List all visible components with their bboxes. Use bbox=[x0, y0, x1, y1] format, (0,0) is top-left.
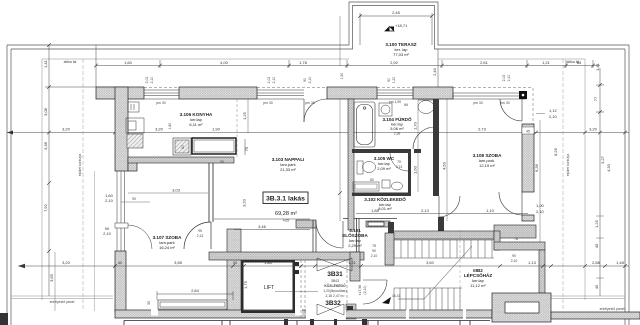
svg-text:1,80: 1,80 bbox=[168, 123, 172, 130]
svg-text:(2,10): (2,10) bbox=[363, 286, 367, 295]
eloszoba top line bbox=[343, 218, 397, 220]
svg-text:2,38: 2,38 bbox=[394, 132, 401, 136]
svg-text:2,10: 2,10 bbox=[371, 254, 378, 258]
svg-text:pm 30: pm 30 bbox=[473, 101, 483, 105]
svg-text:LÉPCSŐHÁZ: LÉPCSŐHÁZ bbox=[464, 271, 493, 278]
svg-text:2,10: 2,10 bbox=[272, 77, 276, 84]
svg-text:2,88: 2,88 bbox=[592, 260, 601, 265]
bathroom door arc bbox=[413, 127, 435, 149]
eloszoba right wall bbox=[357, 218, 360, 252]
bathroom window W3 bbox=[377, 90, 413, 99]
svg-text:LIFT: LIFT bbox=[264, 285, 274, 291]
door in W2 with swing arc bbox=[304, 99, 327, 122]
sheet border top with terrace bump bbox=[7, 2, 629, 49]
svg-text:4,30: 4,30 bbox=[606, 163, 611, 172]
svg-text:3,27: 3,27 bbox=[600, 155, 605, 164]
svg-text:1,88: 1,88 bbox=[371, 208, 380, 213]
svg-text:1,48: 1,48 bbox=[616, 260, 625, 265]
svg-text:90: 90 bbox=[512, 254, 516, 258]
szoba 3.108 door in right wall bbox=[499, 192, 522, 215]
svg-text:2,10: 2,10 bbox=[536, 209, 545, 214]
dashed corner line bbox=[532, 88, 534, 124]
washing machine bbox=[379, 103, 392, 116]
wc fixtures bbox=[390, 153, 408, 171]
lift bbox=[241, 260, 299, 313]
svg-text:pm 30: pm 30 bbox=[305, 101, 315, 105]
svg-text:3,20: 3,20 bbox=[62, 127, 71, 132]
svg-text:90: 90 bbox=[132, 197, 136, 201]
svg-text:6,11 m²: 6,11 m² bbox=[189, 122, 203, 127]
svg-text:2,73: 2,73 bbox=[478, 127, 487, 132]
svg-text:pm 30: pm 30 bbox=[156, 101, 166, 105]
apartment entry door arc bbox=[363, 280, 387, 304]
svg-text:8,01 m²: 8,01 m² bbox=[378, 206, 392, 211]
kitchen bottom wall bbox=[128, 157, 234, 163]
svg-text:1,80: 1,80 bbox=[264, 260, 273, 265]
svg-text:2,18 2,47 m²: 2,18 2,47 m² bbox=[325, 294, 345, 298]
svg-text:+18,71: +18,71 bbox=[395, 23, 408, 28]
svg-text:75: 75 bbox=[397, 160, 401, 164]
svg-text:2,10: 2,10 bbox=[105, 198, 114, 203]
svg-text:90: 90 bbox=[387, 78, 391, 82]
svg-text:pm 1,90: pm 1,90 bbox=[389, 100, 401, 104]
X diamond 1 bbox=[317, 258, 352, 271]
svg-text:1,41: 1,41 bbox=[595, 62, 600, 71]
szoba 3.108 door arc from kozlekedo bbox=[439, 196, 460, 217]
svg-text:erkélyeztő panel: erkélyeztő panel bbox=[50, 300, 75, 304]
top wall segment 2 bbox=[179, 87, 257, 99]
svg-text:4,00: 4,00 bbox=[220, 60, 229, 65]
svg-text:5,06 m²: 5,06 m² bbox=[390, 126, 404, 131]
svg-text:60: 60 bbox=[181, 145, 185, 149]
svg-text:3B31: 3B31 bbox=[327, 271, 343, 278]
svg-text:40: 40 bbox=[118, 260, 123, 265]
svg-text:KÖZLEKEDŐ: KÖZLEKEDŐ bbox=[324, 283, 346, 288]
svg-text:1,25: 1,25 bbox=[242, 111, 247, 120]
balcony edge line left bbox=[94, 171, 96, 311]
svg-text:7,92: 7,92 bbox=[43, 203, 48, 212]
svg-text:1,13: 1,13 bbox=[528, 260, 537, 265]
left wall window bbox=[115, 171, 128, 251]
svg-text:1,70: 1,70 bbox=[413, 121, 418, 130]
svg-text:90: 90 bbox=[303, 78, 307, 82]
svg-text:90: 90 bbox=[220, 160, 224, 164]
svg-text:2,10: 2,10 bbox=[103, 231, 112, 236]
window W1 bbox=[144, 90, 179, 99]
svg-text:2,45: 2,45 bbox=[392, 10, 401, 15]
left vertical dim line x49 bbox=[45, 45, 115, 296]
washbasin bathroom bbox=[418, 101, 434, 114]
left wall corner stub bbox=[128, 160, 137, 171]
svg-text:2,13: 2,13 bbox=[396, 165, 403, 169]
eloszoba left wall bbox=[313, 220, 316, 252]
svg-text:45: 45 bbox=[594, 284, 599, 289]
window W2 bbox=[257, 90, 304, 99]
svg-text:1,90: 1,90 bbox=[340, 73, 344, 80]
svg-text:2,10: 2,10 bbox=[511, 259, 518, 263]
wall column between szoba and lift bbox=[227, 229, 241, 312]
svg-text:3,65: 3,65 bbox=[49, 273, 54, 282]
top wall segment 4 bbox=[413, 87, 453, 99]
kitchen sink unit bbox=[173, 138, 191, 155]
bathroom bottom wall bbox=[352, 149, 411, 153]
wc bottom wall bbox=[352, 193, 411, 197]
wardrobe dim bbox=[157, 291, 233, 300]
svg-text:45: 45 bbox=[526, 130, 530, 134]
svg-text:M: M bbox=[404, 102, 407, 107]
stair right step walls bbox=[494, 231, 500, 250]
svg-text:pm 30: pm 30 bbox=[500, 101, 510, 105]
svg-text:2,61: 2,61 bbox=[480, 60, 489, 65]
svg-text:2,10: 2,10 bbox=[150, 77, 154, 84]
szoba 3.107 wardrobe bbox=[158, 300, 227, 309]
svg-text:6,36: 6,36 bbox=[534, 163, 539, 172]
svg-text:16,24 m²: 16,24 m² bbox=[159, 245, 175, 250]
svg-text:attika fal: attika fal bbox=[64, 60, 77, 64]
top wall segment 1 bbox=[96, 87, 144, 99]
svg-text:8,26: 8,26 bbox=[553, 147, 558, 156]
3B43 corridor area dashed bbox=[300, 260, 302, 319]
svg-text:pm 30: pm 30 bbox=[263, 101, 273, 105]
svg-text:4,50: 4,50 bbox=[442, 161, 447, 170]
erkelyezto panel lines bottom right bbox=[551, 296, 625, 299]
svg-text:90: 90 bbox=[372, 249, 376, 253]
svg-text:2,13: 2,13 bbox=[421, 208, 430, 213]
lakas box bbox=[263, 192, 308, 204]
svg-text:16,41: 16,41 bbox=[392, 294, 401, 298]
svg-text:3,58: 3,58 bbox=[174, 260, 183, 265]
glazed wall szoba bbox=[453, 93, 526, 99]
svg-text:1,78: 1,78 bbox=[299, 60, 308, 65]
svg-text:30: 30 bbox=[233, 260, 238, 265]
svg-text:3B.3.1 lakás: 3B.3.1 lakás bbox=[266, 196, 305, 203]
svg-text:3,20: 3,20 bbox=[62, 260, 71, 265]
svg-text:2,13: 2,13 bbox=[197, 234, 204, 238]
svg-text:40: 40 bbox=[594, 243, 599, 248]
svg-text:1,41: 1,41 bbox=[43, 59, 48, 68]
bottom right band bbox=[551, 312, 640, 319]
bottom right block bbox=[492, 293, 551, 322]
svg-text:2,10: 2,10 bbox=[308, 77, 312, 84]
next unit below bbox=[124, 321, 490, 325]
svg-text:77: 77 bbox=[593, 96, 598, 101]
svg-text:1,90: 1,90 bbox=[212, 127, 221, 132]
terrace dimension 2,45 bbox=[360, 13, 432, 45]
svg-text:21,33 m²: 21,33 m² bbox=[280, 167, 296, 172]
svg-text:1,10: 1,10 bbox=[486, 208, 495, 213]
svg-text:1,20: 1,20 bbox=[392, 77, 396, 84]
eloszoba door arc bbox=[316, 221, 343, 248]
svg-text:1,12: 1,12 bbox=[549, 108, 558, 113]
svg-text:95: 95 bbox=[198, 229, 202, 233]
sheet border left bbox=[7, 45, 11, 325]
szoba 3.108 right wall bbox=[522, 124, 534, 192]
svg-text:78: 78 bbox=[514, 237, 518, 241]
erkelyezto panel lines bottom left bbox=[11, 296, 113, 299]
wall B szoba/nappali divider bbox=[209, 163, 213, 222]
svg-text:2,29 m²: 2,29 m² bbox=[348, 243, 362, 248]
sheet border right bbox=[625, 45, 629, 325]
svg-text:2,92: 2,92 bbox=[390, 60, 399, 65]
svg-text:78: 78 bbox=[372, 244, 376, 248]
svg-text:12,15 m²: 12,15 m² bbox=[479, 163, 495, 168]
svg-text:80: 80 bbox=[370, 178, 374, 182]
right vertical dim line x600 bbox=[596, 68, 604, 296]
svg-text:attika fal: attika fal bbox=[567, 60, 580, 64]
kozlekedo dim line bbox=[356, 213, 528, 215]
svg-text:69,28 m²: 69,28 m² bbox=[275, 211, 297, 217]
door in glazed wall with swing bbox=[500, 99, 522, 121]
svg-text:2,02: 2,02 bbox=[145, 77, 149, 84]
left exterior wall upper bbox=[115, 87, 128, 171]
svg-text:3,46: 3,46 bbox=[258, 224, 267, 229]
stairwell upper-left wall bbox=[385, 233, 394, 265]
eloszoba/nappali wall bbox=[296, 220, 316, 228]
nappali inner dim bbox=[247, 99, 249, 133]
svg-text:3,20: 3,20 bbox=[589, 127, 598, 132]
svg-text:1,21: 1,21 bbox=[348, 260, 357, 265]
bathroom fixtures bbox=[354, 102, 375, 147]
svg-text:1,60: 1,60 bbox=[124, 60, 133, 65]
svg-text:2,40: 2,40 bbox=[432, 67, 437, 76]
svg-text:35: 35 bbox=[147, 301, 151, 305]
svg-text:2,02: 2,02 bbox=[267, 77, 271, 84]
svg-text:1,20(lépcsőkar): 1,20(lépcsőkar) bbox=[323, 289, 346, 293]
svg-text:1,00: 1,00 bbox=[536, 203, 545, 208]
stair walk line bbox=[398, 246, 472, 299]
szoba 3.108 bottom wall bbox=[494, 225, 536, 238]
svg-text:77,03 m²: 77,03 m² bbox=[393, 52, 409, 57]
kitchen/nappali dashed boundary bbox=[236, 99, 238, 157]
svg-text:épület kontúrja: épület kontúrja bbox=[566, 154, 570, 176]
svg-text:3,60: 3,60 bbox=[426, 260, 435, 265]
attika inner face line bbox=[42, 59, 585, 300]
svg-text:1,21: 1,21 bbox=[542, 60, 551, 65]
svg-text:1,25: 1,25 bbox=[594, 219, 599, 228]
bottom dim line y266 bbox=[18, 264, 25, 268]
elevation marker +18,71 bbox=[385, 23, 408, 31]
svg-text:±17,96: ±17,96 bbox=[358, 285, 362, 295]
X diamond 2 bbox=[317, 304, 344, 315]
svg-text:3,08: 3,08 bbox=[43, 107, 48, 116]
svg-text:2,84: 2,84 bbox=[191, 288, 200, 293]
long horizontal dim line y132.5 bbox=[7, 132, 629, 134]
svg-text:2,10: 2,10 bbox=[507, 75, 511, 82]
svg-text:3,03: 3,03 bbox=[172, 188, 181, 193]
svg-text:1,75: 1,75 bbox=[243, 280, 248, 289]
dimension line top y66 bbox=[96, 45, 600, 87]
svg-text:erkélyeztő panel: erkélyeztő panel bbox=[600, 307, 625, 311]
building contour dashed right bbox=[562, 59, 564, 310]
svg-text:3,20: 3,20 bbox=[242, 198, 247, 207]
szoba 3.107 door leaf and arc bbox=[184, 222, 211, 249]
top wall segment 3 bbox=[327, 87, 377, 99]
column corner bbox=[519, 91, 527, 99]
left exterior wall lower bbox=[115, 251, 126, 312]
svg-text:2,09 m²: 2,09 m² bbox=[377, 166, 391, 171]
balcony door arc left bbox=[128, 225, 152, 249]
svg-text:2,10: 2,10 bbox=[549, 114, 558, 119]
stairwell top wall bbox=[389, 231, 500, 239]
nappali alcove dim bbox=[214, 219, 310, 230]
wall C horizontal bbox=[209, 252, 364, 260]
eloszoba top-right wall with door leaf bbox=[366, 221, 390, 227]
svg-text:1,60: 1,60 bbox=[413, 165, 418, 174]
kitchen island bbox=[192, 138, 236, 154]
svg-text:3B43: 3B43 bbox=[331, 279, 339, 283]
svg-text:épület kontúrja: épület kontúrja bbox=[78, 154, 82, 176]
svg-text:3,38: 3,38 bbox=[43, 141, 48, 150]
bath/wc left wall bbox=[348, 99, 354, 230]
svg-text:2,02: 2,02 bbox=[502, 75, 506, 82]
stairwell left wall bbox=[350, 252, 360, 281]
terrace vertical line x438 bbox=[437, 49, 439, 87]
svg-text:3,20: 3,20 bbox=[155, 127, 164, 132]
building contour dashed left bbox=[82, 59, 84, 310]
bath/wc right wall bbox=[433, 99, 439, 196]
svg-text:11,12 m²: 11,12 m² bbox=[470, 283, 486, 288]
